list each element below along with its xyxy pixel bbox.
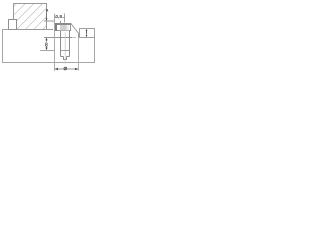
hatched block (upper plate cross-section) <box>14 4 47 30</box>
long extension line left of hole <box>54 14 56 71</box>
step surface line <box>44 20 55 22</box>
small arrow pointing down to step <box>46 13 48 18</box>
hole bottom with tip notch <box>61 56 64 58</box>
svg-text:0,8: 0,8 <box>55 14 62 20</box>
top surface line of lower block <box>44 37 72 39</box>
thick dark left edge of box <box>55 23 57 31</box>
0,8 dimension stubs <box>55 17 56 19</box>
up-down arrow inside right box <box>86 31 88 35</box>
thread depth line inside hole <box>61 50 70 52</box>
thick dark top edge of box <box>55 23 71 25</box>
white square (symbol box) at lower-left of hatched block <box>9 20 17 30</box>
tip rectangle <box>64 57 67 60</box>
left arrowhead <box>55 68 58 70</box>
stub above box <box>60 21 62 23</box>
hole left wall <box>60 31 62 57</box>
bottom dimension line <box>55 68 79 70</box>
centerline <box>64 33 66 64</box>
right extension tick of 0,8 dimension <box>64 14 66 23</box>
hole right wall <box>69 31 71 57</box>
insert head box <box>56 24 71 31</box>
svg-text:a: a <box>46 8 49 13</box>
extension line left of hole at depth <box>40 50 55 52</box>
svg-text:8: 8 <box>45 42 48 48</box>
diagonal line from box corner <box>71 23 79 33</box>
bottom edge of hatched block continuing right <box>17 29 54 31</box>
right arrowhead <box>75 68 78 70</box>
gray insert body inside box <box>60 25 67 31</box>
diameter symbol <box>64 67 67 70</box>
right box on surface <box>80 29 95 38</box>
lower block outline (left, bottom, right edges) <box>3 30 95 63</box>
vertical extension below diagonal <box>78 33 80 37</box>
vertical dimension left of hole <box>45 38 47 41</box>
